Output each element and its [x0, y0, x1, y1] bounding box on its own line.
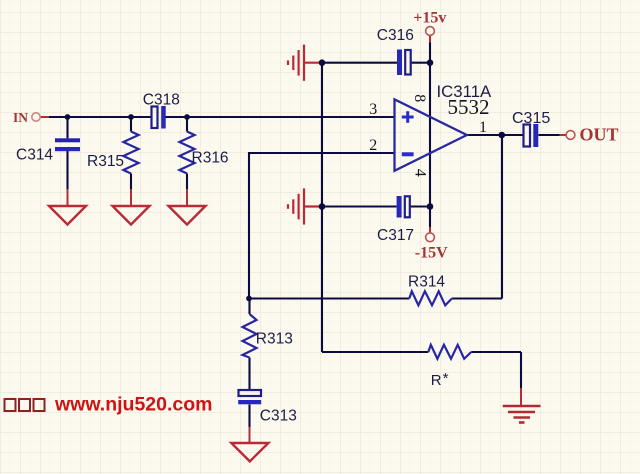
svg-text:-15V: -15V — [415, 245, 448, 262]
svg-text:8: 8 — [411, 94, 428, 102]
svg-text:4: 4 — [411, 169, 428, 177]
svg-text:1: 1 — [479, 119, 487, 136]
svg-text:C318: C318 — [143, 92, 180, 109]
svg-text:R315: R315 — [87, 153, 124, 170]
svg-text:R316: R316 — [192, 150, 229, 167]
svg-text:R314: R314 — [408, 273, 445, 290]
svg-text:C314: C314 — [16, 146, 53, 163]
svg-text:OUT: OUT — [580, 125, 619, 145]
svg-text:R313: R313 — [256, 331, 293, 348]
svg-text:3: 3 — [369, 101, 377, 118]
svg-text:C317: C317 — [377, 227, 414, 244]
svg-text:+15v: +15v — [413, 10, 446, 27]
svg-text:5532: 5532 — [448, 95, 490, 119]
svg-text:2: 2 — [369, 137, 377, 154]
svg-text:R*: R* — [431, 370, 449, 389]
svg-text:C316: C316 — [377, 27, 414, 44]
svg-text:IN: IN — [13, 110, 28, 125]
svg-text:C315: C315 — [512, 110, 550, 127]
svg-text:C313: C313 — [260, 408, 297, 425]
svg-text:www.nju520.com: www.nju520.com — [54, 394, 213, 416]
